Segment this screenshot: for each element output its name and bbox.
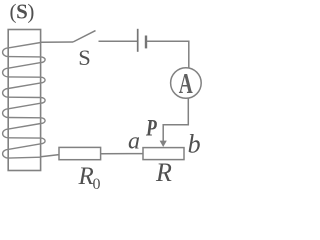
wire switch to battery <box>99 40 138 42</box>
wire R to R0 <box>101 153 143 155</box>
svg-text:R: R <box>78 163 94 190</box>
ammeter A1 circle <box>171 68 202 99</box>
inductor core frame <box>8 30 40 171</box>
svg-text:S: S <box>78 45 91 70</box>
wire battery to ammeter <box>147 41 189 68</box>
rheostat R box <box>143 148 184 160</box>
svg-text:(S): (S) <box>10 0 35 23</box>
resistor R0 box <box>59 147 101 159</box>
slider arrowhead P <box>160 141 167 147</box>
switch S blade <box>73 31 96 42</box>
wire ammeter to slider <box>163 98 188 141</box>
svg-text:a: a <box>128 128 140 154</box>
battery short plate <box>145 36 147 49</box>
svg-text:R: R <box>155 158 172 187</box>
wire R0 to coil <box>41 155 59 157</box>
coil winding <box>3 43 46 159</box>
battery long plate <box>137 29 139 52</box>
svg-text:b: b <box>188 130 201 159</box>
wire coil to switch <box>41 41 73 43</box>
svg-text:A: A <box>179 69 194 100</box>
svg-text:P: P <box>145 116 157 141</box>
svg-text:0: 0 <box>93 176 101 193</box>
